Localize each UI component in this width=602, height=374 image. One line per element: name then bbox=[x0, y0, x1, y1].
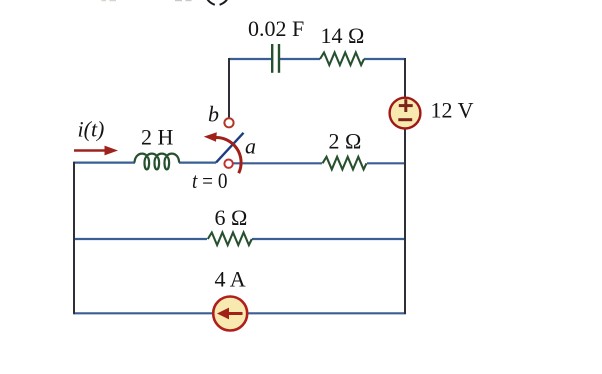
svg-text:a: a bbox=[245, 134, 256, 159]
svg-text:6 Ω: 6 Ω bbox=[215, 205, 248, 230]
svg-text:i(t): i(t) bbox=[78, 117, 105, 142]
svg-text:b: b bbox=[208, 102, 219, 127]
svg-text:4 A: 4 A bbox=[215, 267, 246, 292]
svg-text:14 Ω: 14 Ω bbox=[321, 23, 365, 48]
svg-text:2 H: 2 H bbox=[141, 125, 174, 150]
svg-text:12 V: 12 V bbox=[431, 98, 474, 123]
svg-text:t = 0: t = 0 bbox=[192, 168, 228, 193]
svg-text:2 Ω: 2 Ω bbox=[329, 129, 362, 154]
svg-text:0.02 F: 0.02 F bbox=[248, 16, 304, 41]
